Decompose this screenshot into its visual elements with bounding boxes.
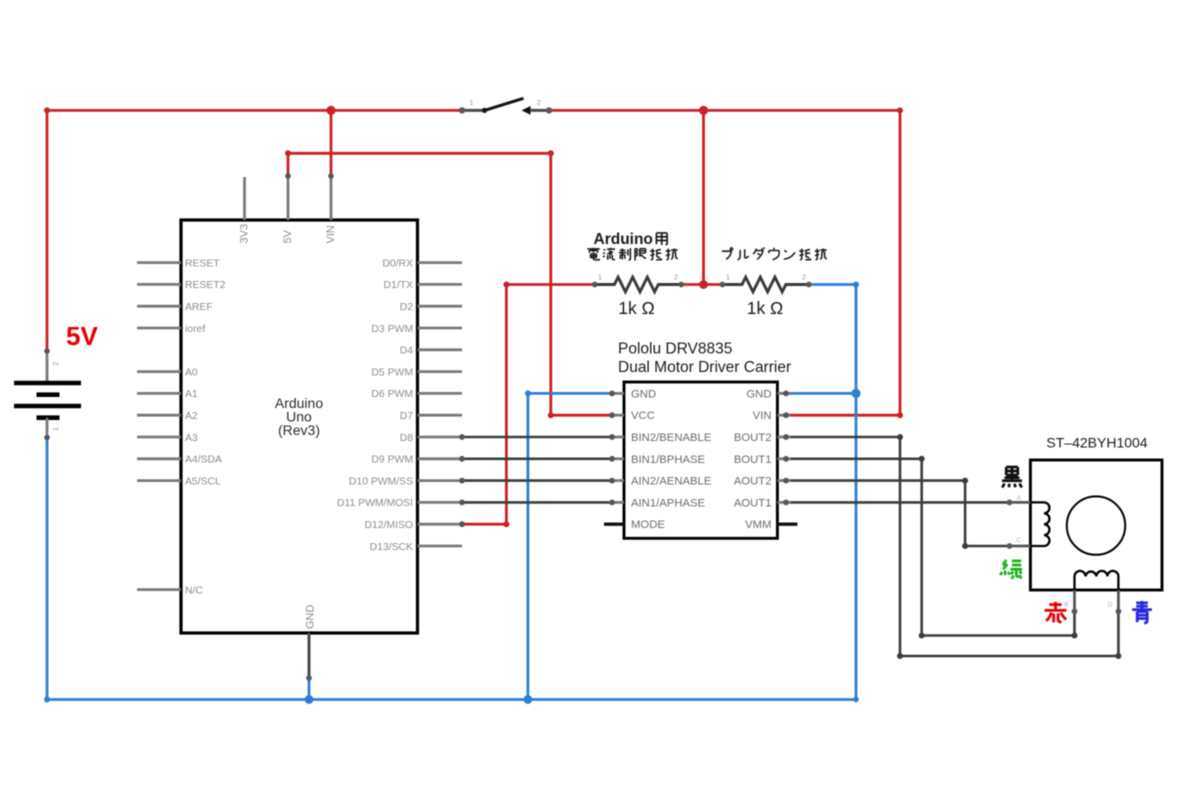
- switch pin label 2: [537, 98, 541, 107]
- label Arduino Uno (Rev3): [275, 395, 323, 438]
- svg-text:D3 PWM: D3 PWM: [371, 324, 413, 335]
- stepper motor M1 ST-42BYH1004 body: [1030, 460, 1162, 590]
- label 1k ohm R2: [747, 298, 783, 318]
- svg-text:VIN: VIN: [325, 225, 337, 243]
- wire red battery+ vertical: [44, 107, 50, 351]
- pin label AOUT2: [734, 476, 772, 488]
- svg-text:D1/TX: D1/TX: [384, 280, 414, 291]
- pin label BIN1/BPHASE: [631, 454, 706, 466]
- svg-text:Pololu DRV8835: Pololu DRV8835: [618, 341, 732, 358]
- label aka (red wire): [1045, 602, 1067, 623]
- label 1k ohm R1: [618, 298, 654, 318]
- label ST-42BYH1004: [1046, 435, 1147, 451]
- wire AOUT2 to motor pin C: [786, 478, 1010, 549]
- svg-text:D11 PWM/MOSI: D11 PWM/MOSI: [337, 498, 413, 509]
- pin RESET2: [137, 283, 181, 286]
- wire BOUT2 to motor pin D: [786, 434, 1121, 659]
- pin BIN1/BPHASE (driver left): [609, 456, 624, 462]
- resistor R2 1k pulldown: [720, 277, 812, 292]
- pin D6 PWM: [418, 392, 463, 395]
- resistor R2 pin label 2: [802, 273, 806, 282]
- wire red VCC vertical: [548, 153, 612, 418]
- pin AREF: [137, 305, 181, 308]
- pin label B: [1064, 602, 1068, 609]
- pin D13/SCK: [418, 545, 463, 548]
- wire blue pulldown resistor to bus vertical: [811, 282, 859, 700]
- pin label A0: [185, 367, 198, 378]
- node junction top rail to resistors: [699, 106, 708, 115]
- svg-text:GND: GND: [631, 388, 656, 400]
- pin label 5V: [282, 229, 294, 243]
- label 5V battery voltage: [66, 321, 98, 351]
- pin BIN2/BENABLE (driver left): [609, 434, 624, 440]
- op-amp? no: Arduino Uno U1 body: [181, 220, 418, 633]
- svg-text:D13/SCK: D13/SCK: [370, 542, 413, 553]
- wire blue battery- vertical: [44, 438, 50, 703]
- switch S1: [459, 98, 552, 115]
- svg-text:2: 2: [802, 273, 806, 282]
- svg-text:D5 PWM: D5 PWM: [371, 367, 413, 378]
- pin label D12/MISO: [364, 520, 413, 531]
- pin A0: [137, 370, 181, 373]
- svg-text:A5/SCL: A5/SCL: [185, 476, 221, 487]
- svg-text:BOUT2: BOUT2: [734, 432, 772, 444]
- pin label BOUT2: [734, 432, 772, 444]
- svg-text:BOUT1: BOUT1: [734, 454, 772, 466]
- pin 3V3: [243, 177, 246, 220]
- label kuro (black wire): [1002, 467, 1022, 488]
- battery pin label 1: [51, 427, 60, 431]
- motor driver U2 DRV8835 body: [624, 382, 777, 538]
- svg-text:MODE: MODE: [631, 519, 665, 531]
- pin label D2: [400, 302, 414, 313]
- node junction resistors: [699, 280, 708, 289]
- node junction bus to Arduino GND: [305, 678, 314, 704]
- pin label ioref: [185, 324, 205, 335]
- resistor R1 pin label 2: [674, 273, 678, 282]
- pin D11 PWM/MOSI: [418, 500, 465, 506]
- node junction bus to driver GND-left: [524, 695, 533, 704]
- svg-text:D8: D8: [400, 433, 414, 444]
- pin AIN1/APHASE (driver left): [609, 500, 624, 506]
- label Pololu DRV8835: [618, 341, 732, 358]
- pin label VMM: [745, 519, 771, 531]
- pin BOUT2 (driver right): [777, 434, 790, 440]
- pin D12/MISO: [418, 521, 465, 527]
- pin label C: [1016, 537, 1021, 544]
- pin label D5 PWM: [371, 367, 413, 378]
- motor rotor circle: [1067, 496, 1125, 554]
- pin ioref: [137, 327, 181, 330]
- pin label RESET2: [185, 280, 226, 291]
- wire D11 to AIN1/APHASE: [462, 501, 612, 504]
- svg-text:1: 1: [598, 273, 602, 282]
- pin label GND: [631, 388, 656, 400]
- pin label D6 PWM: [371, 389, 413, 400]
- wire D8 to BIN2/BENABLE: [462, 436, 612, 439]
- pin A motor: [1007, 500, 1031, 506]
- svg-text:AIN2/AENABLE: AIN2/AENABLE: [631, 476, 712, 488]
- svg-text:1k Ω: 1k Ω: [618, 298, 654, 318]
- label pulldown resistor katakana: [722, 248, 827, 261]
- pin N/C: [137, 588, 181, 591]
- svg-text:2: 2: [51, 362, 60, 366]
- pin label AIN2/AENABLE: [631, 476, 712, 488]
- wire blue ground bus: [47, 697, 859, 703]
- pin VIN (driver right): [777, 412, 790, 418]
- pin B motor: [1072, 590, 1078, 614]
- pin D10 PWM/SS: [418, 478, 465, 484]
- pin label A: [1017, 495, 1022, 502]
- battery BT1 5V: [14, 348, 81, 440]
- wire red vertical rail to resistor junction: [702, 110, 705, 284]
- svg-text:D9 PWM: D9 PWM: [371, 455, 413, 466]
- motor coil bottom (B-D winding): [1075, 571, 1119, 590]
- pin GND (driver right): [777, 391, 790, 397]
- node junction GND-right to bus vertical: [851, 389, 860, 398]
- svg-text:1: 1: [726, 273, 730, 282]
- pin A2: [137, 414, 181, 417]
- pin label AIN1/APHASE: [631, 497, 706, 509]
- wire AOUT1 to motor pin A: [786, 501, 1010, 504]
- svg-text:GND: GND: [305, 605, 317, 630]
- pin label A1: [185, 389, 198, 400]
- pin D8: [418, 434, 465, 440]
- wire red second rail (5V to VCC drop): [288, 150, 554, 156]
- pin AOUT2 (driver right): [777, 478, 790, 484]
- svg-text:B: B: [1064, 602, 1068, 609]
- wire blue driver GND-left drop: [525, 390, 612, 699]
- pin label A5/SCL: [185, 476, 221, 487]
- svg-text:ioref: ioref: [185, 324, 205, 335]
- pin AOUT1 (driver right): [777, 500, 790, 506]
- pin D2: [418, 305, 463, 308]
- svg-text:A0: A0: [185, 367, 198, 378]
- svg-text:D12/MISO: D12/MISO: [364, 520, 413, 531]
- pin label D9 PWM: [371, 455, 413, 466]
- pin BOUT1 (driver right): [777, 456, 790, 462]
- label current-limit-resistor kanji line2: [587, 248, 678, 261]
- pin label D8: [400, 433, 414, 444]
- svg-text:A1: A1: [185, 389, 198, 400]
- switch pin label 1: [469, 98, 473, 107]
- pin label A2: [185, 411, 198, 422]
- pin label D7: [400, 411, 414, 422]
- pin label D4: [400, 346, 414, 357]
- pin label VIN: [753, 410, 772, 422]
- pin MODE (driver left): [604, 523, 624, 526]
- pin VIN: [328, 173, 334, 220]
- motor coil left (A-C winding): [1030, 502, 1049, 546]
- wire red VIN drop: [330, 110, 333, 176]
- label midori (green wire): [1000, 560, 1022, 579]
- pin label GND: [746, 388, 771, 400]
- resistor R2 pin label 1: [726, 273, 730, 282]
- pin D0/RX: [418, 261, 463, 264]
- wire D9 to BIN1/BPHASE: [462, 457, 612, 460]
- pin A5/SCL: [137, 479, 181, 482]
- wire D10 to AIN2/AENABLE: [462, 479, 612, 482]
- pin label D1/TX: [384, 280, 414, 291]
- pin 5V: [285, 173, 291, 220]
- node junction top rail to VIN: [326, 106, 335, 115]
- svg-text:1: 1: [469, 98, 473, 107]
- pin label D0/RX: [382, 258, 413, 269]
- pin RESET: [137, 261, 181, 264]
- pin label AREF: [185, 302, 213, 313]
- pin label VCC: [631, 410, 655, 422]
- pin D3 PWM: [418, 327, 463, 330]
- svg-text:D: D: [1108, 602, 1113, 609]
- pin label D11 PWM/MOSI: [337, 498, 413, 509]
- pin C motor: [1007, 543, 1031, 549]
- pin label BOUT1: [734, 454, 772, 466]
- svg-text:1k Ω: 1k Ω: [747, 298, 783, 318]
- wire BOUT1 to motor pin B: [786, 456, 1078, 639]
- svg-text:A2: A2: [185, 411, 198, 422]
- pin D5 PWM: [418, 370, 463, 373]
- pin D4: [418, 348, 463, 351]
- wire red D12 to resistor 1: [462, 282, 595, 528]
- svg-text:C: C: [1016, 537, 1021, 544]
- pin D9 PWM: [418, 456, 465, 462]
- svg-text:RESET: RESET: [185, 258, 220, 269]
- svg-text:VMM: VMM: [745, 519, 771, 531]
- pin GND bottom: [306, 633, 312, 681]
- svg-text:D7: D7: [400, 411, 414, 422]
- pin label MODE: [631, 519, 665, 531]
- pin A1: [137, 392, 181, 395]
- svg-text:5V: 5V: [66, 321, 98, 351]
- wire red 5V pin riser: [285, 150, 291, 176]
- svg-text:A3: A3: [185, 433, 198, 444]
- pin D motor: [1116, 590, 1122, 614]
- pin label N/C: [185, 585, 203, 596]
- svg-text:VIN: VIN: [753, 410, 772, 422]
- svg-text:Dual Motor Driver Carrier: Dual Motor Driver Carrier: [618, 359, 791, 376]
- pin label D3 PWM: [371, 324, 413, 335]
- svg-text:D4: D4: [400, 346, 414, 357]
- pin label VIN: [325, 225, 337, 243]
- wire blue driver GND-right link: [786, 392, 856, 395]
- resistor R1 1k current limiting: [592, 277, 684, 292]
- svg-text:1: 1: [51, 427, 60, 431]
- pin label GND: [305, 605, 317, 630]
- svg-text:Arduino: Arduino: [594, 231, 653, 248]
- pin VMM (driver right): [777, 523, 797, 526]
- pin label A3: [185, 433, 198, 444]
- svg-text:3V3: 3V3: [239, 224, 251, 244]
- svg-text:D6 PWM: D6 PWM: [371, 389, 413, 400]
- svg-text:2: 2: [537, 98, 541, 107]
- pin label RESET: [185, 258, 220, 269]
- svg-text:N/C: N/C: [185, 585, 203, 596]
- svg-text:5V: 5V: [282, 229, 294, 243]
- pin label AOUT1: [734, 497, 772, 509]
- pin A4/SDA: [137, 457, 181, 460]
- resistor R1 pin label 1: [598, 273, 602, 282]
- pin label 3V3: [239, 224, 251, 244]
- svg-text:AOUT2: AOUT2: [734, 476, 772, 488]
- svg-text:BIN2/BENABLE: BIN2/BENABLE: [631, 432, 712, 444]
- pin D1/TX: [418, 283, 463, 286]
- svg-text:AREF: AREF: [185, 302, 213, 313]
- pin label D: [1108, 602, 1113, 609]
- svg-text:A4/SDA: A4/SDA: [185, 455, 222, 466]
- svg-text:D2: D2: [400, 302, 414, 313]
- pin GND (driver left): [609, 391, 624, 397]
- wire red top rail right segment (switch to corner): [549, 109, 900, 112]
- pin D7: [418, 414, 463, 417]
- svg-text:ST–42BYH1004: ST–42BYH1004: [1046, 435, 1147, 451]
- pin A3: [137, 436, 181, 439]
- svg-text:(Rev3): (Rev3): [278, 422, 320, 438]
- svg-text:BIN1/BPHASE: BIN1/BPHASE: [631, 454, 706, 466]
- svg-text:VCC: VCC: [631, 410, 655, 422]
- pin VCC (driver left): [609, 412, 624, 418]
- svg-text:D0/RX: D0/RX: [382, 258, 413, 269]
- wire red right vertical to VIN pin of driver: [786, 107, 903, 418]
- svg-text:AOUT1: AOUT1: [734, 497, 772, 509]
- svg-text:RESET2: RESET2: [185, 280, 226, 291]
- wire red top rail left segment: [46, 109, 462, 112]
- label ao (blue wire): [1132, 601, 1152, 623]
- svg-text:A: A: [1017, 495, 1022, 502]
- label Dual Motor Driver Carrier: [618, 359, 791, 376]
- wire red resistor1 to junction to resistor2: [680, 283, 722, 286]
- pin label D10 PWM/SS: [349, 476, 413, 487]
- pin AIN2/AENABLE (driver left): [609, 478, 624, 484]
- svg-text:GND: GND: [746, 388, 771, 400]
- pin label A4/SDA: [185, 455, 222, 466]
- battery pin label 2: [51, 362, 60, 366]
- svg-text:D10 PWM/SS: D10 PWM/SS: [349, 476, 413, 487]
- pin label D13/SCK: [370, 542, 413, 553]
- pin label BIN2/BENABLE: [631, 432, 712, 444]
- svg-text:AIN1/APHASE: AIN1/APHASE: [631, 497, 706, 509]
- svg-text:2: 2: [674, 273, 678, 282]
- label Arduino-yo (current limit resistor for Arduino) line1: [594, 231, 668, 248]
